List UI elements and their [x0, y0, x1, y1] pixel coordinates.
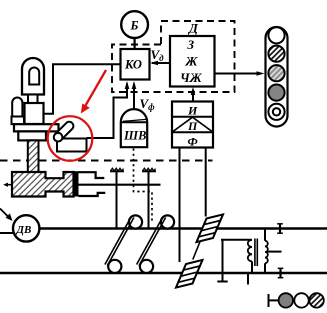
knob pedestal — [12, 117, 25, 125]
svg-text:ШВ: ШВ — [123, 129, 146, 143]
brush contact 2 — [148, 171, 150, 228]
svg-text:З: З — [187, 37, 195, 52]
KO box — [121, 49, 150, 80]
red highlight circle — [48, 116, 93, 161]
svg-text:КО: КО — [124, 58, 142, 72]
legend tick — [268, 294, 270, 307]
I/P/F box (filter unit) — [172, 102, 213, 148]
right leg to upper receiver coil — [205, 148, 207, 217]
stem B to KO — [134, 38, 136, 49]
ground stub with bar — [222, 273, 224, 281]
secondary middle tap — [267, 251, 282, 253]
lens 1 (off, white) — [268, 27, 284, 43]
dotted linkage ShV to wheel area — [134, 149, 153, 223]
wheelset 1 wheels — [108, 260, 121, 273]
lamp housing (whistle) — [22, 58, 44, 95]
lens 4 (gray) — [268, 85, 284, 101]
wire Z box to traffic light — [215, 73, 262, 75]
exhaust arrow — [5, 184, 12, 186]
KO dashed box — [112, 45, 161, 93]
svg-text:Ф: Ф — [188, 134, 198, 148]
upper receiver coil — [197, 214, 224, 242]
lens 3 (gray hatched) — [268, 65, 284, 81]
lower receiver coil — [176, 260, 203, 288]
insulated joint rail 1 — [279, 224, 281, 233]
lamp inner element — [29, 68, 39, 85]
legend white circle — [294, 293, 308, 307]
side knob — [12, 98, 22, 117]
primary winding — [248, 240, 252, 262]
Vd wire with arrow into KO — [152, 62, 170, 64]
valve body (hatched cross-section) — [12, 172, 74, 197]
svg-text:Б: Б — [130, 19, 139, 33]
svg-text:П: П — [187, 119, 198, 133]
wheelset 2 wheels — [140, 260, 153, 273]
vigilance handle (capsule) — [54, 122, 73, 141]
piston (black) — [74, 171, 79, 196]
valve upper block — [25, 103, 44, 124]
handle pivot — [54, 133, 63, 142]
wire from KO to vigilance handle — [87, 84, 128, 139]
red arrow — [84, 70, 107, 109]
legend hatched circle — [309, 293, 323, 307]
svg-text:Д: Д — [188, 21, 199, 36]
DV circle (speed sensor) — [13, 215, 39, 241]
left leg to lower receiver coil — [179, 148, 181, 263]
transformer core — [254, 239, 256, 267]
neck — [28, 95, 38, 104]
cylinder with jaws — [79, 172, 105, 178]
arrow to DV — [0, 209, 10, 219]
traffic light head — [266, 27, 288, 127]
B circle (whistle battery) — [121, 11, 148, 38]
wheelset 2 axle — [137, 216, 164, 264]
brush contact 1 — [116, 171, 118, 228]
svg-text:ДВ: ДВ — [16, 224, 32, 236]
flange plate lower — [18, 131, 46, 140]
track transformer primary loop — [221, 239, 252, 241]
svg-text:Ж: Ж — [185, 54, 199, 69]
wire ShV to KO — [133, 84, 135, 110]
lens 5 (double ring) — [268, 104, 284, 120]
svg-text:ЧЖ: ЧЖ — [180, 70, 203, 85]
valve stem (hatched shaft) — [28, 140, 39, 172]
piston rod — [79, 184, 161, 186]
wheelset 1 axle — [105, 216, 132, 264]
secondary winding — [264, 229, 266, 241]
rail 1 — [40, 227, 327, 229]
stub below rail 2 — [247, 273, 249, 285]
rail 1 left stub — [0, 232, 14, 234]
legend gray circle — [279, 293, 293, 307]
svg-text:И: И — [187, 104, 198, 118]
wire from lamp housing to KO — [44, 64, 121, 114]
handle bracket — [57, 139, 87, 152]
link between receiver coils — [193, 241, 201, 260]
insulated joint rail 2 — [279, 268, 281, 277]
D dashed box — [161, 21, 235, 92]
lens 2 (hatched) — [268, 46, 284, 62]
arrow I/P/F up to Z box — [192, 90, 194, 102]
rail 2 — [0, 272, 327, 274]
flange plate upper — [14, 124, 59, 131]
boundary dashed line between locomotive and track equipment — [0, 160, 213, 162]
Z/Zh/ChZh box (decoder) — [170, 36, 215, 87]
ShV unit (dome-top box) — [121, 109, 147, 147]
